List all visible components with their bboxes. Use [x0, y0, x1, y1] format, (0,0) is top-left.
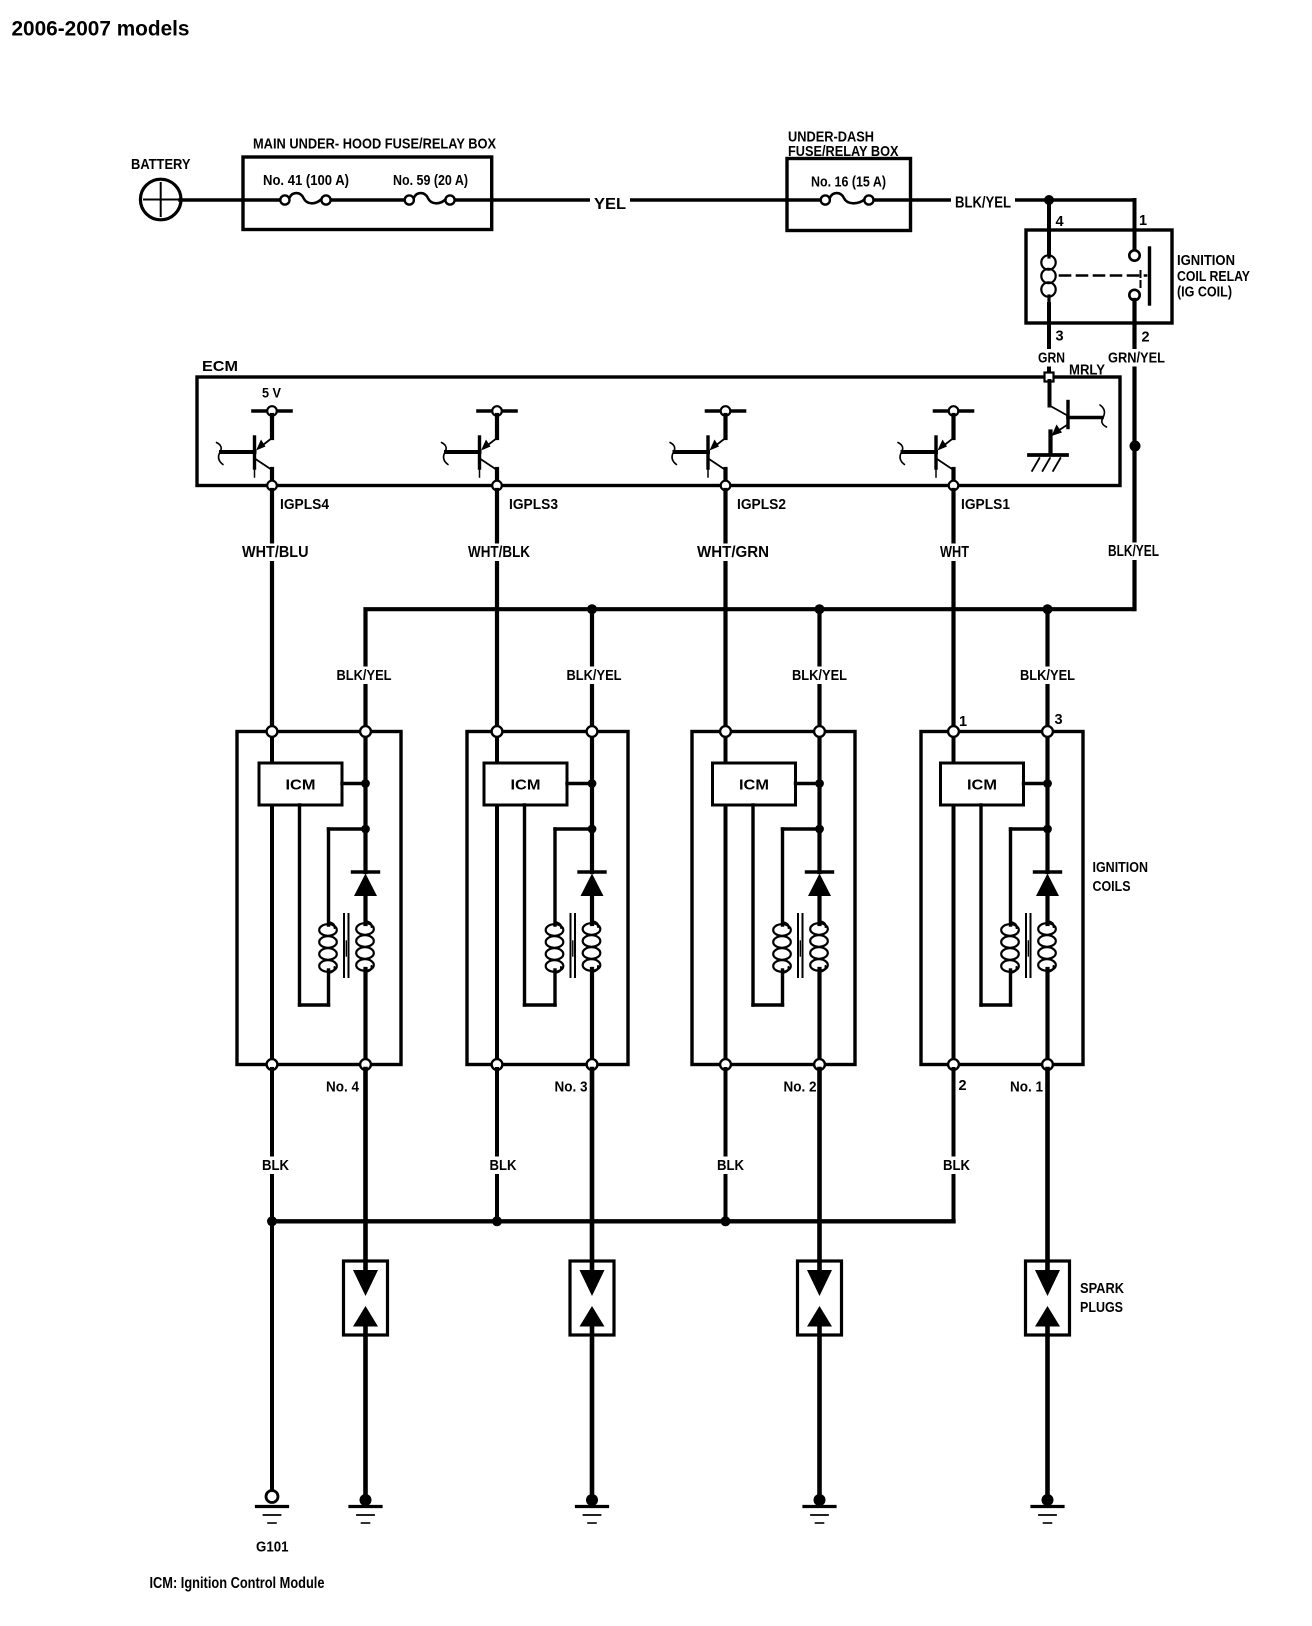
wire: pin 1 drop	[1133, 200, 1137, 251]
wire: relay pin 2 GRN/YEL down	[1132, 300, 1136, 609]
ignition coil relay box	[1026, 230, 1172, 323]
transistor IGPLS4	[253, 409, 291, 413]
wire: bus to G101	[270, 1221, 274, 1490]
transistor IGPLS3	[478, 409, 516, 413]
transistor IGPLS2	[707, 409, 745, 413]
junction primary branch	[588, 825, 597, 834]
wire: secondary to bottom pin	[590, 969, 594, 1060]
wire: spark plug to ground	[817, 1327, 822, 1496]
svg-text:GRN: GRN	[1038, 350, 1065, 367]
coil pins (connector circles)	[948, 726, 959, 737]
spark plug 3	[570, 1261, 614, 1335]
wire: primary branch	[329, 827, 366, 830]
ignition coil No. 4 box	[237, 732, 401, 1065]
junction coil3 BLK	[492, 1216, 502, 1226]
svg-text:BLK: BLK	[262, 1157, 289, 1174]
junction primary branch	[361, 825, 370, 834]
svg-text:BLK/YEL: BLK/YEL	[567, 667, 622, 684]
secondary winding coil 1	[1048, 921, 1054, 927]
junction primary branch	[1043, 825, 1052, 834]
BLK/YEL labels above coils	[333, 667, 396, 685]
svg-text:1: 1	[1139, 213, 1147, 229]
transistor MRLY	[1048, 381, 1052, 406]
junction ICM lead	[361, 779, 370, 788]
svg-text:2: 2	[959, 1078, 967, 1094]
BLK ground bus	[272, 1219, 954, 1223]
svg-text:ICM: ICM	[739, 777, 769, 794]
wire: ICM bottom to coil bottom pin	[270, 805, 274, 1060]
branch wires to coils	[590, 609, 594, 731]
wire: ICM primary drive down	[979, 805, 982, 1005]
svg-text:COILS: COILS	[1093, 879, 1131, 895]
relay contact	[1129, 250, 1139, 260]
wire: primary branch	[783, 827, 820, 830]
ground: spark plug 4	[360, 1494, 372, 1506]
spark plug 4	[344, 1261, 388, 1335]
svg-text:G101: G101	[256, 1540, 289, 1556]
svg-text:BLK: BLK	[943, 1157, 970, 1174]
transformer core	[1025, 914, 1027, 977]
wire: pin 4 drop	[1047, 200, 1051, 253]
secondary winding coil 2	[820, 921, 826, 927]
ground G101	[266, 1491, 278, 1503]
wire: ICM bottom to coil bottom pin	[495, 805, 499, 1060]
svg-text:IGPLS3: IGPLS3	[509, 497, 558, 513]
wire: BLK/YEL vertical inside coil	[817, 736, 821, 872]
svg-text:IGPLS4: IGPLS4	[280, 497, 329, 513]
wire: BLK/YEL vertical inside coil	[363, 736, 367, 872]
svg-text:ICM: Ignition Control Module: ICM: Ignition Control Module	[150, 1575, 325, 1592]
svg-text:No. 59 (20 A): No. 59 (20 A)	[393, 173, 468, 189]
svg-text:BLK/YEL: BLK/YEL	[955, 195, 1011, 212]
junction ICM lead	[588, 779, 597, 788]
wire: primary branch	[1011, 827, 1048, 830]
wire: IGPLS2 output WHT/GRN	[723, 490, 727, 732]
svg-text:IGNITION: IGNITION	[1177, 253, 1235, 269]
wire: diode to secondary	[1045, 896, 1049, 924]
svg-text:2: 2	[1142, 330, 1150, 346]
ground: spark plug 1	[1042, 1494, 1054, 1506]
wire: ICM right lead	[796, 782, 820, 785]
junction coil2 BLK	[721, 1216, 731, 1226]
wire: ICM right lead	[1024, 782, 1048, 785]
svg-text:ICM: ICM	[511, 777, 541, 794]
transistor IGPLS1	[935, 409, 973, 413]
wire label BLK/YEL	[951, 194, 1015, 212]
battery	[140, 179, 181, 220]
svg-text:3: 3	[1056, 329, 1064, 345]
relay actuator dashed line	[1060, 274, 1146, 277]
ICM module coil 2	[713, 763, 796, 805]
svg-text:WHT: WHT	[940, 544, 969, 561]
junction bus to coil2	[815, 604, 825, 614]
wire: IGPLS1 output WHT	[951, 490, 955, 732]
wire: ICM primary drive down	[298, 805, 301, 1005]
primary winding coil 1	[1011, 922, 1017, 928]
ignition coil No. 2 box	[692, 732, 855, 1065]
svg-text:BLK: BLK	[490, 1157, 517, 1174]
svg-text:No. 2: No. 2	[784, 1080, 817, 1096]
wire: diode to secondary	[363, 896, 367, 924]
node: GRN at ECM top	[1045, 373, 1054, 382]
junction ICM lead	[815, 779, 824, 788]
svg-text:ECM: ECM	[202, 358, 238, 375]
svg-text:ICM: ICM	[286, 777, 316, 794]
svg-text:BLK/YEL: BLK/YEL	[1020, 667, 1075, 684]
diode coil 4	[353, 870, 379, 873]
BLK/YEL bus	[366, 609, 1135, 731]
wire: secondary to bottom pin	[817, 969, 821, 1060]
svg-text:2006-2007 models: 2006-2007 models	[12, 18, 190, 41]
wire: battery to ignition coil relay	[180, 198, 280, 202]
wire: coil 4 secondary to spark plug	[363, 1069, 368, 1270]
wire label YEL	[590, 196, 630, 214]
main under-hood fuse/relay box	[243, 157, 492, 230]
diode coil 1	[1035, 870, 1061, 873]
wire: ICM bottom to coil bottom pin	[952, 805, 956, 1060]
svg-text:3: 3	[1055, 712, 1063, 728]
junction primary branch	[815, 825, 824, 834]
junction bus to coil3	[587, 604, 597, 614]
wire: diode to secondary	[817, 896, 821, 924]
wire: secondary to bottom pin	[363, 969, 367, 1060]
junction G101 drop	[267, 1216, 277, 1226]
secondary winding coil 4	[366, 921, 372, 927]
wire label BLK/YEL right	[1104, 543, 1163, 561]
wire: IGPLS4 output WHT/BLU	[270, 490, 274, 732]
svg-text:FUSE/RELAY BOX: FUSE/RELAY BOX	[788, 143, 899, 160]
svg-text:1: 1	[959, 714, 967, 730]
svg-text:(IG COIL): (IG COIL)	[1177, 285, 1232, 301]
coil pins (connector circles)	[720, 726, 731, 737]
secondary winding coil 3	[592, 921, 598, 927]
BLK ground wires from coils	[270, 1069, 274, 1221]
wire: BLK/YEL vertical inside coil	[1045, 736, 1049, 872]
wire: BLK/YEL vertical inside coil	[590, 736, 594, 872]
wire: spark plug to ground	[590, 1327, 595, 1496]
wire: diode to secondary	[590, 896, 594, 924]
wire: ICM primary drive down	[523, 805, 526, 1005]
transformer core	[797, 914, 799, 977]
wire: coil 3 secondary to spark plug	[590, 1069, 595, 1270]
svg-text:WHT/BLK: WHT/BLK	[468, 544, 531, 561]
ground: spark plug 3	[586, 1494, 598, 1506]
ignition coil No. 3 box	[467, 732, 628, 1065]
wire: IGPLS3 output WHT/BLK	[495, 490, 499, 732]
diode coil 2	[807, 870, 833, 873]
svg-text:No. 1: No. 1	[1010, 1080, 1043, 1096]
svg-text:SPARK: SPARK	[1080, 1281, 1124, 1297]
coil pins (connector circles)	[492, 726, 503, 737]
transformer core	[343, 914, 345, 977]
wire: spark plug to ground	[1045, 1327, 1050, 1496]
svg-text:GRN/YEL: GRN/YEL	[1108, 350, 1165, 367]
svg-text:No. 4: No. 4	[326, 1080, 359, 1096]
spark plug 1	[1026, 1261, 1070, 1335]
relay coil	[1047, 253, 1050, 257]
splice on GRN/YEL wire	[1130, 441, 1141, 452]
svg-text:COIL RELAY: COIL RELAY	[1177, 269, 1250, 285]
svg-text:IGNITION: IGNITION	[1093, 860, 1149, 876]
svg-text:No. 16 (15 A): No. 16 (15 A)	[811, 175, 886, 191]
ground: MRLY emitter	[1029, 453, 1067, 457]
diode coil 3	[579, 870, 605, 873]
ICM module coil 1	[941, 763, 1024, 805]
wire: coil 2 secondary to spark plug	[817, 1069, 822, 1270]
wire: ICM primary drive down	[751, 805, 754, 1005]
junction ICM lead	[1043, 779, 1052, 788]
svg-text:No. 3: No. 3	[555, 1080, 588, 1096]
svg-text:4: 4	[1056, 214, 1064, 230]
primary winding coil 2	[783, 922, 789, 928]
primary winding coil 3	[555, 922, 561, 928]
svg-text:IGPLS2: IGPLS2	[737, 497, 786, 513]
ground: spark plug 2	[814, 1494, 826, 1506]
junction: top bus split to relay pin 4	[1044, 195, 1054, 205]
svg-text:BLK: BLK	[717, 1157, 744, 1174]
svg-text:BLK/YEL: BLK/YEL	[792, 667, 847, 684]
wire: left pin into ICM	[270, 736, 274, 763]
ICM module coil 4	[259, 763, 342, 805]
svg-text:YEL: YEL	[594, 196, 626, 213]
svg-text:BLK/YEL: BLK/YEL	[337, 667, 392, 684]
wire: left pin into ICM	[724, 736, 728, 763]
wire: secondary to bottom pin	[1045, 969, 1049, 1060]
wire: coil 1 secondary to spark plug	[1045, 1069, 1050, 1270]
ICM module coil 3	[484, 763, 567, 805]
wire: left pin into ICM	[952, 736, 956, 763]
wire: relay pin 3 GRN to ECM	[1047, 304, 1051, 373]
transformer core	[570, 914, 572, 977]
coil pins (connector circles)	[267, 726, 278, 737]
svg-text:5 V: 5 V	[262, 385, 282, 401]
svg-text:MAIN UNDER- HOOD FUSE/RELAY BO: MAIN UNDER- HOOD FUSE/RELAY BOX	[253, 136, 496, 153]
wire: ICM bottom to coil bottom pin	[724, 805, 728, 1060]
wire: spark plug to ground	[363, 1327, 368, 1496]
primary winding coil 4	[329, 922, 335, 928]
ignition coil No. 1 box	[921, 732, 1083, 1065]
wire: left pin into ICM	[495, 736, 499, 763]
svg-text:BATTERY: BATTERY	[131, 156, 191, 173]
svg-text:IGPLS1: IGPLS1	[961, 497, 1010, 513]
svg-text:BLK/YEL: BLK/YEL	[1108, 543, 1159, 560]
ECM box	[197, 377, 1120, 486]
wire: ICM right lead	[342, 782, 366, 785]
spark plug 2	[798, 1261, 842, 1335]
junction bus to coil1	[1043, 604, 1053, 614]
svg-text:No. 41 (100 A): No. 41 (100 A)	[263, 173, 349, 189]
svg-text:PLUGS: PLUGS	[1080, 1300, 1123, 1316]
wire: ICM right lead	[567, 782, 592, 785]
under-dash fuse/relay box	[787, 159, 911, 231]
MRLY label	[1065, 361, 1109, 379]
svg-text:ICM: ICM	[967, 777, 997, 794]
wire: primary branch	[555, 827, 592, 830]
svg-text:WHT/GRN: WHT/GRN	[697, 544, 769, 561]
svg-text:WHT/BLU: WHT/BLU	[242, 544, 309, 561]
